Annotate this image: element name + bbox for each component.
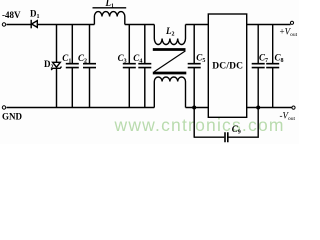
capacitor C3 plates [123,64,136,68]
capacitor C7 leads [257,25,259,108]
-Vout terminal [292,106,295,109]
return wire transformer to block [186,107,209,109]
capacitor C1 leads [71,25,73,108]
inductor L1 riser left [93,17,95,25]
transformer L2 top-right pendant [185,25,187,39]
capacitor C3 leads [128,25,130,108]
capacitor C2 plates [83,64,96,68]
transformer L2 bottom-right pendant [185,82,187,108]
svg-text:C5: C5 [196,53,205,65]
wire input to D1 [7,24,32,26]
inductor L1 overline [93,7,127,9]
zener D2 symbol [53,62,61,67]
svg-text:+Vout: +Vout [280,27,298,39]
transformer L2 secondary winding [154,77,185,82]
capacitor C9 plates [225,132,228,142]
wire after L1 to transformer [125,24,155,26]
capacitor C5 plates [188,64,201,68]
transformer core bar top [153,48,186,51]
input terminal -48V [2,23,5,26]
svg-text:www.cntronics.com: www.cntronics.com [114,115,285,135]
capacitor C2 leads [89,25,91,108]
svg-text:C7: C7 [259,53,268,65]
svg-text:DC/DC: DC/DC [212,62,243,72]
svg-text:D1: D1 [30,9,40,21]
DC/DC converter block U1 [208,14,246,117]
wire D1 to L1 [37,24,94,26]
transformer L2 bottom-left pendant [153,82,155,108]
svg-text:-Vout: -Vout [280,111,296,123]
svg-text:C1: C1 [62,53,71,65]
capacitor C5 leads [193,25,195,138]
svg-text:C2: C2 [78,53,87,65]
inductor L1 coil [94,12,124,17]
svg-text:D2: D2 [44,59,54,71]
svg-text:C3: C3 [118,53,127,65]
svg-text:GND: GND [2,112,23,122]
svg-text:C4: C4 [133,53,142,65]
transformer L2 top-left pendant [153,25,155,39]
transformer L2 primary winding [154,39,185,45]
-Vout bus wire [247,107,292,109]
GND terminal [2,106,5,109]
transformer core bar bottom [153,72,187,75]
GND bus wire [7,107,155,109]
diode D1 symbol [30,20,32,29]
+Vout wire [247,24,291,26]
junction dot C7/-Vout [256,106,260,110]
transformer diagonal stroke [154,51,185,72]
capacitor C4 leads [144,25,146,108]
capacitor C8 plates [266,64,279,68]
capacitor C1 plates [66,64,79,68]
inductor L1 riser right [124,17,126,25]
svg-text:-48V: -48V [2,10,21,20]
capacitor C9 loop right [229,108,259,138]
capacitor C4 plates [138,64,151,68]
svg-text:C8: C8 [275,53,284,65]
wire transformer to DC/DC block [186,24,209,26]
+Vout terminal [290,21,293,24]
zener D2 branch wire top [56,25,58,63]
svg-text:L2: L2 [165,26,175,38]
capacitor C8 leads [272,25,274,108]
capacitor C9 loop left [194,136,224,138]
junction dot C5/return [192,106,196,110]
capacitor C7 plates [252,64,265,68]
zener D2 branch wire bottom [56,68,58,107]
